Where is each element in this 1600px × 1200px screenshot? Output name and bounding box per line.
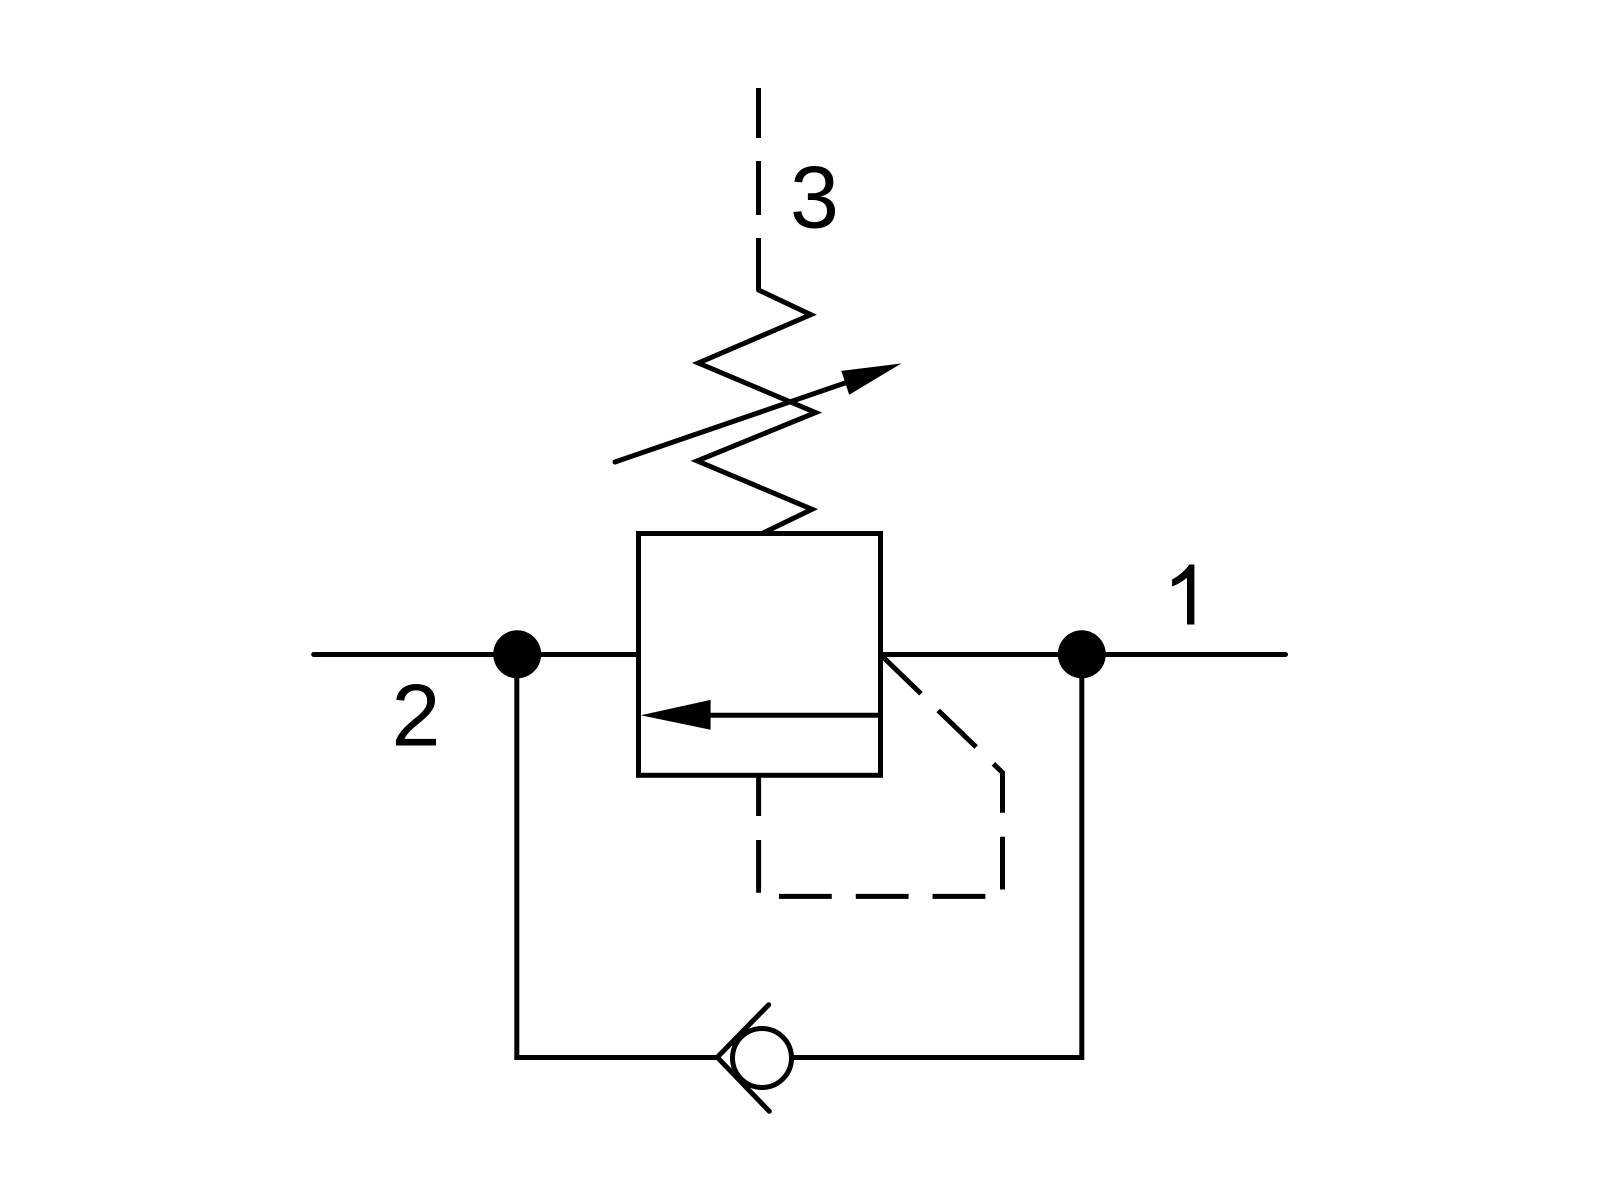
check valve CV1: seat	[717, 1005, 769, 1112]
node 1 label	[1172, 565, 1194, 625]
valve flow-path arrow shaft	[707, 713, 881, 718]
svg-text:3: 3	[790, 148, 839, 247]
adjustment arrow head	[841, 363, 901, 394]
node 2 junction dot	[493, 630, 541, 678]
valve flow-path arrow head	[641, 700, 711, 730]
node 1 junction dot	[1058, 630, 1106, 678]
valve body V1 (square envelope)	[639, 534, 881, 776]
wire: port 3 pilot line (dashed vertical)	[756, 88, 761, 290]
wire: main line left (port 2 side)	[314, 652, 639, 657]
adjustment arrow shaft	[615, 381, 850, 462]
wire: bypass left (node 2 down and right)	[517, 655, 718, 1058]
wire: pilot line from port 1 (dashed)	[759, 657, 1003, 896]
wire: bypass right (node 1 down and left)	[792, 655, 1082, 1058]
spring (adjustable, valve setting)	[697, 290, 815, 534]
wire: main line right (port 1 side)	[881, 652, 1286, 657]
svg-text:2: 2	[392, 666, 441, 765]
check valve CV1: ball	[733, 1029, 792, 1088]
